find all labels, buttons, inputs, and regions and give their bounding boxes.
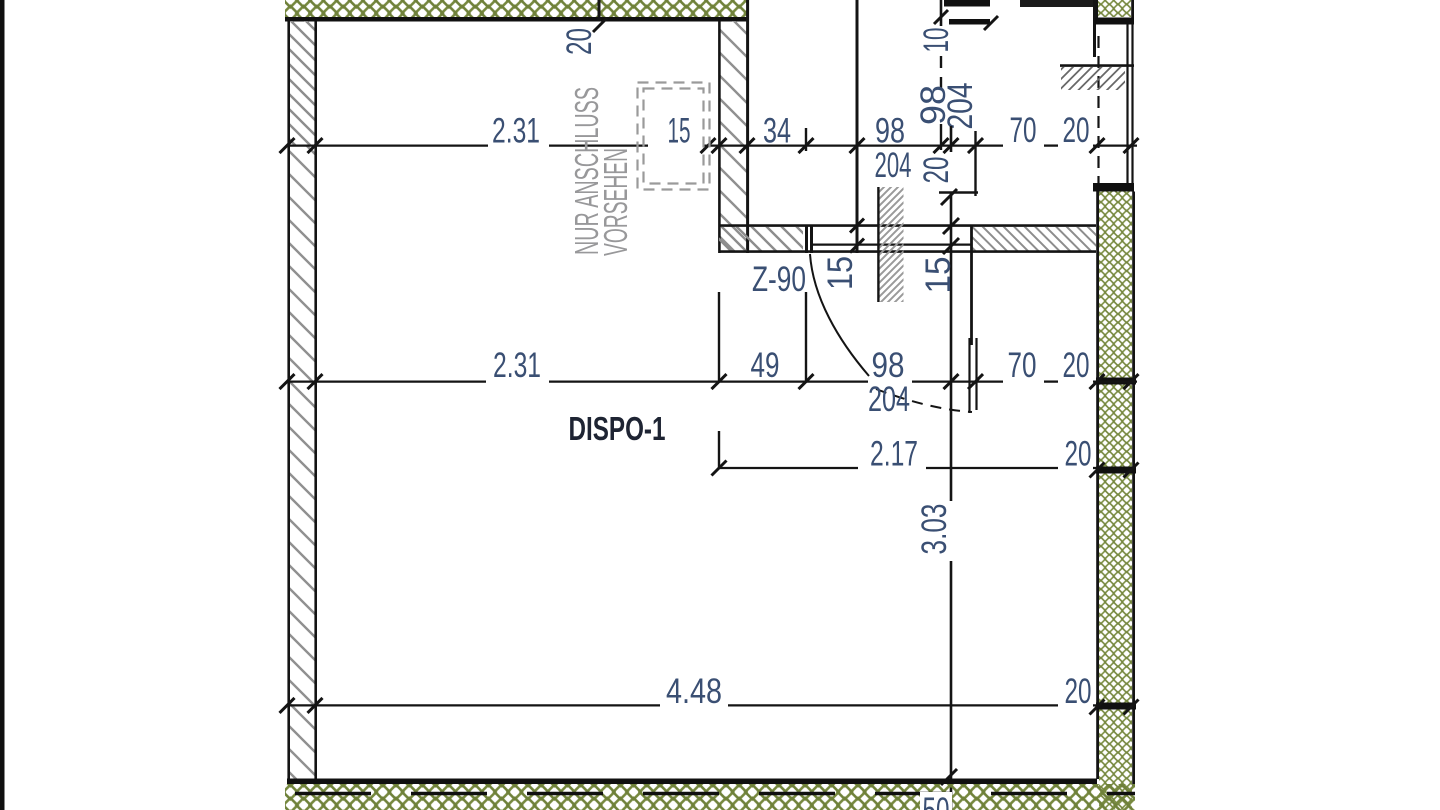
- svg-text:VORSEHEN: VORSEHEN: [597, 148, 634, 256]
- door jamb double line: [805, 225, 808, 253]
- svg-text:20: 20: [560, 28, 599, 55]
- svg-text:15: 15: [821, 256, 860, 290]
- wall: small top bars (door jamb above): [944, 0, 990, 7]
- svg-text:2.17: 2.17: [870, 435, 918, 474]
- svg-text:20: 20: [1063, 346, 1090, 385]
- label 50 rotated cut at bottom: [920, 792, 952, 810]
- wall: top-right dark wall band: [1020, 0, 1093, 7]
- svg-text:70: 70: [1010, 111, 1037, 150]
- wall: right exterior green cross-hatch wall: [1099, 192, 1132, 810]
- svg-text:34: 34: [763, 112, 791, 151]
- svg-text:10: 10: [917, 28, 956, 53]
- dim chain y=468: [719, 467, 858, 469]
- svg-text:70: 70: [1008, 346, 1037, 385]
- svg-text:15: 15: [919, 257, 958, 294]
- wall: bottom inner face line: [287, 779, 1097, 785]
- appliance: dashed box (NUR ANSCHLUSS VORSEHEN): [638, 83, 710, 190]
- svg-text:49: 49: [751, 346, 780, 385]
- wall: interior vertical wall hatched: [721, 21, 747, 252]
- svg-text:20: 20: [1063, 111, 1090, 150]
- svg-text:204: 204: [941, 83, 980, 130]
- wall: dense-hatch pier/column: [879, 187, 904, 302]
- wire: extension x=975 upper: [974, 131, 976, 196]
- svg-text:3.03: 3.03: [915, 504, 954, 555]
- door Z-90 swing arc: [810, 254, 869, 376]
- wire: hidden dashed line in bottom wall: [295, 792, 1135, 796]
- svg-text:50: 50: [923, 791, 950, 810]
- wire: partition wall line x=857: [850, 219, 864, 233]
- svg-text:Z-90: Z-90: [752, 260, 806, 299]
- wire: threshold line across openings: [812, 244, 971, 246]
- svg-text:15: 15: [668, 112, 691, 151]
- wire: top wall inner face line: [285, 17, 748, 22]
- svg-text:98: 98: [875, 112, 905, 151]
- wall: left party wall hatched: [290, 21, 315, 145]
- wall: horizontal wall band right segment: [972, 227, 1096, 251]
- wall: bottom exterior green band: [285, 784, 1135, 810]
- wire: left page edge bar: [0, 0, 5, 810]
- wire: door2 right jamb / leaf edge: [970, 225, 973, 345]
- svg-text:4.48: 4.48: [666, 672, 722, 711]
- wall above: hatched band: [1060, 64, 1134, 67]
- svg-text:204: 204: [875, 146, 912, 185]
- wire: wall separator at y=470: [1096, 467, 1136, 474]
- svg-text:20: 20: [1065, 672, 1092, 711]
- svg-text:204: 204: [868, 380, 910, 419]
- door2 dashed swing arc: [876, 389, 972, 412]
- wall: horizontal wall band left segment: [719, 227, 803, 251]
- wire: dashed extension x=941: [940, 56, 942, 88]
- wire: vertical dim line x=599 through band: [598, 0, 601, 22]
- dim chain middle y=382: [287, 380, 486, 382]
- wire: wall separator at y=381: [1096, 378, 1136, 385]
- svg-text:2.31: 2.31: [492, 112, 540, 151]
- wall: top exterior green cross-hatch band: [285, 0, 748, 17]
- wire: mini line y=192: [939, 191, 978, 193]
- wire: wall separator at y=706: [1096, 703, 1136, 710]
- wall: green square above window: [1098, 0, 1131, 17]
- svg-text:20: 20: [917, 157, 956, 184]
- wire: long vertical line x=951 (3.03 chain): [950, 126, 953, 152]
- window: right window assembly: [1097, 36, 1099, 184]
- dim chain top y=145: [287, 144, 488, 146]
- dim chain y=705: [287, 704, 660, 706]
- svg-text:2.31: 2.31: [493, 346, 541, 385]
- svg-text:20: 20: [1065, 435, 1092, 474]
- svg-text:DISPO-1: DISPO-1: [569, 410, 666, 447]
